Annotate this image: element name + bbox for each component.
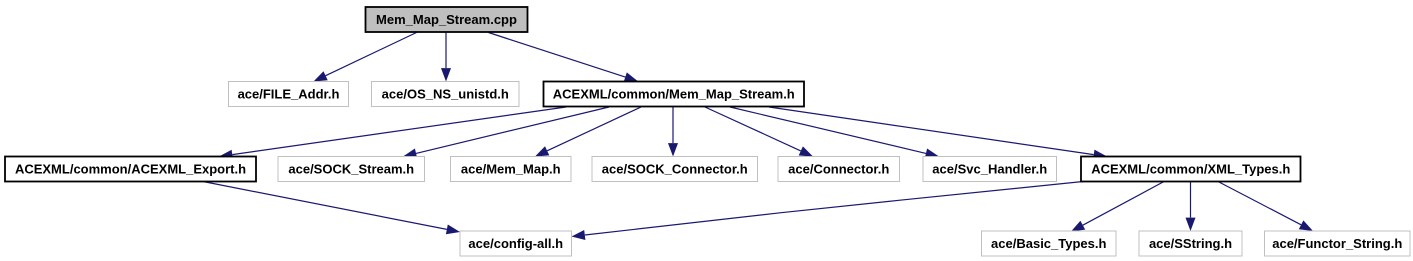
wire Mem_Map_Stream.h -> ace/Mem_Map.h xyxy=(535,107,641,157)
svg-text:ace/FILE_Addr.h: ace/FILE_Addr.h xyxy=(238,87,340,102)
node ace/SOCK_Stream.h xyxy=(278,157,425,182)
wire Mem_Map_Stream.h -> ACEXML/common/XML_Types.h xyxy=(769,107,1107,160)
wire XML_Types.h -> ace/Basic_Types.h xyxy=(1071,182,1164,232)
svg-text:ace/OS_NS_unistd.h: ace/OS_NS_unistd.h xyxy=(382,87,509,102)
wire Mem_Map_Stream.h -> ace/SOCK_Connector.h xyxy=(668,107,678,157)
wire Mem_Map_Stream.h -> ACEXML/common/ACEXML_Export.h xyxy=(219,107,566,160)
node Mem_Map_Stream.cpp xyxy=(366,7,528,32)
wire Mem_Map_Stream.h -> ace/Svc_Handler.h xyxy=(730,107,939,158)
wire Mem_Map_Stream.cpp -> ace/OS_NS_unistd.h xyxy=(441,33,451,82)
node ace/SString.h xyxy=(1139,231,1242,256)
svg-text:ace/Svc_Handler.h: ace/Svc_Handler.h xyxy=(932,162,1047,177)
wire ACEXML_Export.h -> ace/config-all.h xyxy=(203,182,460,235)
svg-text:ace/SString.h: ace/SString.h xyxy=(1149,236,1232,251)
svg-text:Mem_Map_Stream.cpp: Mem_Map_Stream.cpp xyxy=(376,12,517,27)
wire XML_Types.h -> ace/SString.h xyxy=(1186,182,1196,232)
svg-text:ACEXML/common/ACEXML_Export.h: ACEXML/common/ACEXML_Export.h xyxy=(15,162,246,177)
svg-text:ace/SOCK_Stream.h: ace/SOCK_Stream.h xyxy=(288,162,414,177)
node ACEXML/common/XML_Types.h xyxy=(1081,157,1301,182)
svg-text:ace/Connector.h: ace/Connector.h xyxy=(788,162,889,177)
wire XML_Types.h -> ace/config-all.h xyxy=(572,182,1084,241)
svg-text:ace/Basic_Types.h: ace/Basic_Types.h xyxy=(991,236,1106,251)
wire Mem_Map_Stream.h -> ace/Connector.h xyxy=(705,107,813,157)
wire Mem_Map_Stream.h -> ace/SOCK_Stream.h xyxy=(403,107,609,158)
node ace/Mem_Map.h xyxy=(451,157,572,182)
svg-text:ACEXML/common/Mem_Map_Stream.h: ACEXML/common/Mem_Map_Stream.h xyxy=(553,87,795,102)
node ace/Connector.h xyxy=(778,157,900,182)
svg-text:ace/Functor_String.h: ace/Functor_String.h xyxy=(1272,236,1402,251)
svg-text:ace/SOCK_Connector.h: ace/SOCK_Connector.h xyxy=(602,162,748,177)
svg-text:ACEXML/common/XML_Types.h: ACEXML/common/XML_Types.h xyxy=(1091,162,1290,177)
node ace/Basic_Types.h xyxy=(982,231,1117,256)
svg-text:ace/Mem_Map.h: ace/Mem_Map.h xyxy=(461,162,561,177)
wire Mem_Map_Stream.cpp -> ace/FILE_Addr.h xyxy=(314,33,417,82)
node ace/config-all.h xyxy=(460,231,572,256)
node ACEXML/common/Mem_Map_Stream.h xyxy=(544,82,805,107)
node ace/FILE_Addr.h xyxy=(229,82,349,107)
node ace/SOCK_Connector.h xyxy=(592,157,758,182)
svg-text:ace/config-all.h: ace/config-all.h xyxy=(468,236,563,251)
wire XML_Types.h -> ace/Functor_String.h xyxy=(1218,182,1313,232)
node ace/Svc_Handler.h xyxy=(923,157,1057,182)
node ace/OS_NS_unistd.h xyxy=(372,82,520,107)
node ace/Functor_String.h xyxy=(1265,231,1411,256)
wire Mem_Map_Stream.cpp -> ACEXML/common/Mem_Map_Stream.h xyxy=(489,33,639,82)
node ACEXML/common/ACEXML_Export.h xyxy=(5,157,256,182)
